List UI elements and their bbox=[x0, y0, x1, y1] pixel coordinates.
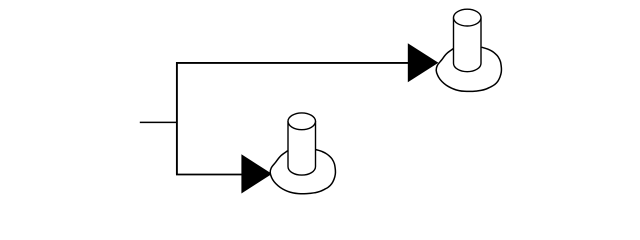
terminal post P1 (top right) bbox=[436, 9, 501, 91]
wire vertical branch bbox=[176, 62, 178, 175]
arrowhead top branch bbox=[408, 43, 439, 82]
P1 cylinder top cap bbox=[454, 9, 482, 26]
P2 cylinder body bbox=[288, 121, 316, 175]
P1 cylinder body bbox=[453, 18, 481, 72]
wire top branch bbox=[176, 62, 408, 64]
arrowhead bottom branch bbox=[241, 154, 272, 193]
P1 base dome bbox=[436, 47, 501, 91]
P2 base dome bbox=[270, 150, 335, 194]
P2 cylinder top cap bbox=[288, 113, 316, 130]
terminal post P2 (bottom left) bbox=[270, 113, 335, 194]
wire input stub bbox=[140, 121, 177, 123]
wire bottom branch bbox=[176, 174, 243, 176]
